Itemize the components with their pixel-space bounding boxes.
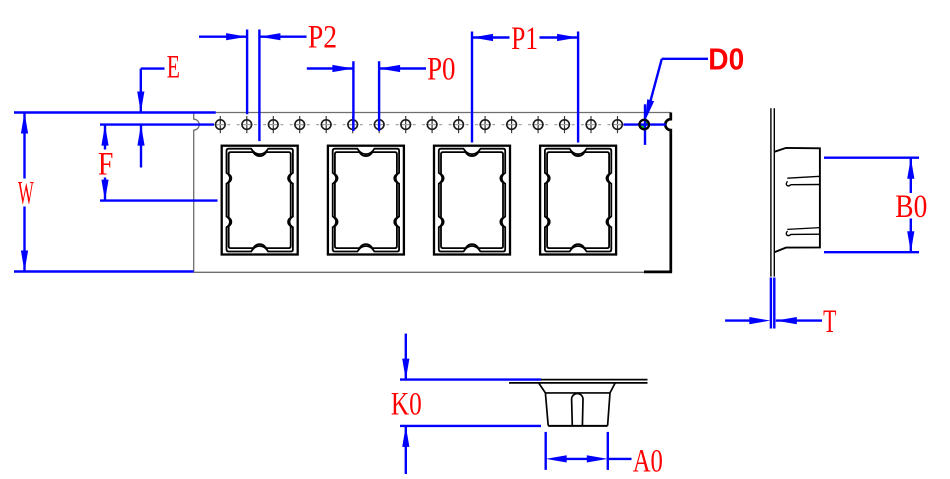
tape cut edge (right, thick) with sprocket half-hole notch <box>644 113 672 272</box>
dimension K0 extension lines <box>400 380 541 426</box>
dimension E leader and arrows <box>137 69 164 168</box>
svg-text:A0: A0 <box>633 443 663 479</box>
carrier tape outline (top view) <box>194 113 671 273</box>
svg-text:P2: P2 <box>308 20 337 56</box>
svg-text:T: T <box>823 304 836 340</box>
dimension B0 extension lines <box>824 158 919 253</box>
side view: embossed pocket profile <box>774 148 820 252</box>
sprocket hole 15 <box>581 116 601 133</box>
sprocket hole 12 <box>502 116 522 133</box>
label B0 <box>895 189 927 225</box>
svg-text:B0: B0 <box>895 189 927 225</box>
component pocket 3 <box>434 146 510 255</box>
sprocket hole 14 <box>555 116 575 133</box>
label P2 <box>308 20 337 56</box>
svg-text:E: E <box>167 49 180 85</box>
label E <box>167 49 180 85</box>
dimension P2 arrows <box>199 33 307 40</box>
dimension W arrows <box>21 113 28 272</box>
side view: pocket rib groove 2 <box>786 228 820 236</box>
component pocket 1 <box>222 146 298 255</box>
dimension P0 arrows <box>307 65 426 72</box>
sprocket hole 9 <box>422 116 442 133</box>
dimension T extension lines <box>771 278 774 329</box>
label D0 <box>708 42 744 77</box>
svg-text:F: F <box>98 147 114 183</box>
sprocket hole 3 <box>263 116 283 133</box>
side view: pocket rib groove 1 <box>786 176 820 186</box>
component pocket 4 <box>540 146 616 255</box>
sprocket hole 11 <box>475 116 495 133</box>
dimension A0 arrows <box>546 455 632 462</box>
dimension D0 leader with arrow <box>645 59 708 121</box>
sprocket hole 1 <box>210 116 230 133</box>
dimension K0 arrows <box>402 334 409 474</box>
label K0 <box>391 387 422 423</box>
sprocket hole 17 (D0 reference hole, highlighted) <box>624 104 666 145</box>
section view: tape surface lines <box>509 380 648 383</box>
svg-text:W: W <box>18 175 34 211</box>
dimension F arrows <box>101 125 108 201</box>
dimension A0 extension lines <box>546 432 608 470</box>
sprocket hole 13 <box>528 116 548 133</box>
label F <box>98 147 114 183</box>
dimension P2 extension lines <box>247 30 259 142</box>
svg-text:P1: P1 <box>511 21 538 57</box>
sprocket hole 8 <box>396 116 416 133</box>
dimension W extension lines <box>14 113 216 272</box>
sprocket hole 5 <box>316 116 336 133</box>
side view: tape film edge-on <box>771 108 774 276</box>
label P1 <box>511 21 538 57</box>
label P0 <box>427 52 455 88</box>
dimension P1 extension lines <box>472 32 578 143</box>
section view: pocket cavity profile <box>539 383 616 426</box>
dimension P1 arrows <box>472 34 578 41</box>
sprocket hole 10 <box>449 116 469 133</box>
sprocket hole 16 <box>608 116 628 133</box>
label T <box>823 304 836 340</box>
sprocket hole 6 <box>343 116 363 133</box>
dimension T arrows <box>725 317 822 324</box>
svg-text:P0: P0 <box>427 52 455 88</box>
sprocket hole 7 <box>369 116 389 133</box>
section view: center pedestal slot <box>572 394 583 426</box>
dimension F extension lines <box>100 125 218 201</box>
sprocket hole 2 <box>237 116 257 133</box>
dimension B0 arrows <box>907 158 914 253</box>
dimension P0 extension lines <box>353 61 379 131</box>
label A0 <box>633 443 663 479</box>
component pocket 2 <box>328 146 404 255</box>
sprocket hole 4 <box>290 116 310 133</box>
svg-text:D0: D0 <box>708 42 744 77</box>
label W <box>18 175 34 211</box>
svg-text:K0: K0 <box>391 387 422 423</box>
